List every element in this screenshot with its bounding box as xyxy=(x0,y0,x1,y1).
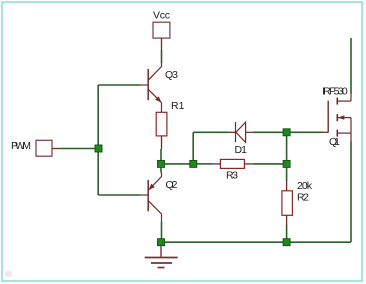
wire R1 bottom pin xyxy=(161,136,163,149)
node A xyxy=(158,160,165,167)
wire R3 left pin xyxy=(212,163,220,165)
port Vcc xyxy=(153,22,170,38)
wire PWM to base rail xyxy=(60,148,95,150)
node C xyxy=(283,129,290,136)
svg-text:R1: R1 xyxy=(171,100,185,112)
wire R3 to node D xyxy=(253,163,283,165)
wire node A to node B xyxy=(165,163,190,165)
svg-text:PWM: PWM xyxy=(11,140,31,152)
junction PWM node xyxy=(95,145,102,152)
wire R2 to ground rail xyxy=(286,225,288,239)
wire node D to R2 xyxy=(286,167,288,181)
wire R2 bottom pin xyxy=(286,215,288,225)
transistor Q3 xyxy=(141,63,162,112)
port PWM xyxy=(36,140,52,156)
wire Q3 base xyxy=(98,84,140,86)
resistor R3 xyxy=(220,159,244,168)
ground xyxy=(145,246,178,268)
wire gate xyxy=(290,131,322,133)
wire Vcc pin stub xyxy=(161,38,163,50)
wire D1 to node C xyxy=(253,131,283,133)
wire base rail vertical xyxy=(97,85,99,195)
svg-text:Q3: Q3 xyxy=(165,69,178,81)
transistor Q1 MOSFET xyxy=(328,94,351,141)
resistor R1 xyxy=(156,112,167,136)
svg-text:IRF530: IRF530 xyxy=(322,85,348,97)
svg-text:Q2: Q2 xyxy=(166,179,178,191)
svg-text:D1: D1 xyxy=(235,144,248,156)
wire R3 left xyxy=(197,163,212,165)
wire Vcc to Q3 collector xyxy=(161,50,163,63)
node GND right xyxy=(283,239,290,246)
wire to D1 cathode xyxy=(193,131,228,133)
node GND left xyxy=(158,239,165,246)
wire PWM pin stub xyxy=(52,148,60,150)
wire Q2 base xyxy=(98,194,140,196)
wire R3 right pin xyxy=(244,163,252,165)
wire R2 top pin xyxy=(286,181,288,191)
svg-text:Vcc: Vcc xyxy=(153,9,170,21)
svg-text:R3: R3 xyxy=(226,169,238,181)
wire node B up xyxy=(192,132,194,160)
wire R1 to node A xyxy=(160,149,162,160)
wire source down xyxy=(350,141,352,242)
svg-text:Q1: Q1 xyxy=(329,136,340,148)
diode D1 xyxy=(236,122,254,142)
wire node C to node D xyxy=(286,136,288,161)
svg-text:R2: R2 xyxy=(297,191,309,203)
svg-text:20k: 20k xyxy=(297,180,313,192)
wire node A to Q2 emitter xyxy=(160,167,162,172)
wire ground rail xyxy=(165,241,351,243)
wire gate pin xyxy=(322,131,328,133)
wire D1 cathode pin xyxy=(228,131,235,133)
wire drain up xyxy=(350,38,352,94)
transistor Q2 xyxy=(141,173,162,223)
resistor R2 xyxy=(282,191,293,216)
wire Q2 collector down xyxy=(161,222,163,239)
node D xyxy=(283,160,290,167)
node B xyxy=(190,160,197,167)
